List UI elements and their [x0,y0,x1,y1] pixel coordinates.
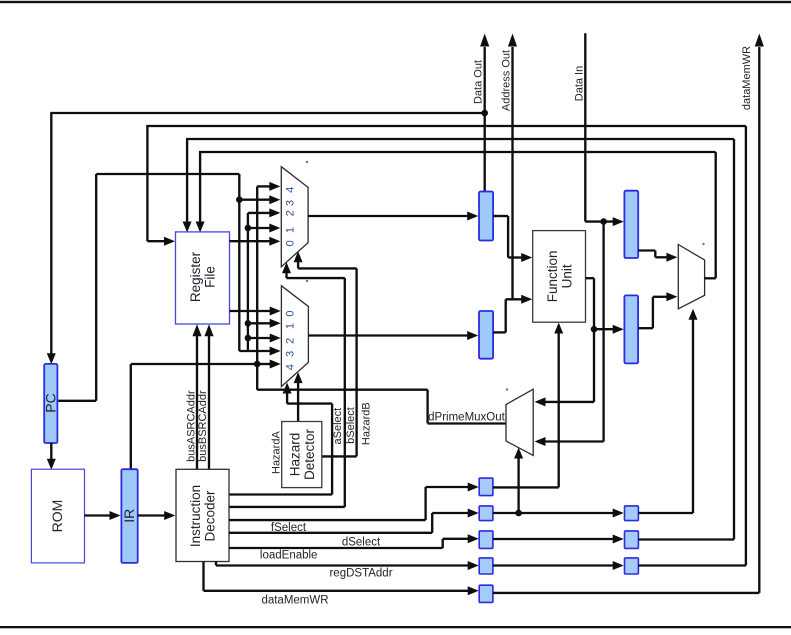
node junction MUXB in4 / IR immediate [254,361,261,368]
register file [176,232,230,324]
hazard detector [282,422,322,488]
pipeline latch R3 [625,531,639,549]
wire register A to function unit input 1 [493,216,532,262]
wire busASRCAddr [192,324,201,469]
instruction decoder [176,469,229,561]
page border top [0,1,791,3]
wire function unit output to register and dPrime mux input 1 [535,278,624,406]
svg-text:Data Out: Data Out [472,60,484,104]
wire regDSTAddr writeback feedback to Register File [146,126,746,566]
wire writeback data from output mux to Register File top [196,152,716,278]
wire dPrimeMuxOut to MUX A input 4 and MUX B input 4 [257,182,506,424]
pipeline latch R2 [625,506,639,521]
wire Data In to register and dPrime mux input 2 [535,33,624,446]
svg-text:busASRCAddr: busASRCAddr [185,390,197,462]
svg-text:0: 0 [285,240,297,246]
svg-text:Unit: Unit [559,264,574,288]
svg-text:HazardB: HazardB [360,402,372,445]
wire busBSRCAddr [204,324,213,469]
svg-text:2: 2 [285,338,297,344]
register FU-output [624,295,638,363]
svg-text:4: 4 [285,364,297,370]
register data-in [624,191,638,258]
wire loadEnable from decoder to pipeline latch 4 [216,561,479,570]
svg-text:3: 3 [285,200,297,206]
wire latch R4 to feedback riser [638,564,746,566]
wire latch R2 to output mux select [638,309,697,513]
svg-text:PC: PC [43,393,59,412]
register IR [121,469,137,563]
node junction MUXB in1 [245,320,252,327]
svg-text:dPrimeMuxOut: dPrimeMuxOut [428,411,505,423]
svg-text:Detector: Detector [302,428,317,480]
wire HazardA from hazard detector to MUX B select [294,372,303,421]
pipeline latch L1 [479,478,493,496]
wire MUX A output to register A [308,212,478,221]
svg-text:Function: Function [545,251,560,303]
svg-text:File: File [203,266,218,288]
wire output mux to writeback feedback [705,277,716,279]
svg-text:bSelect: bSelect [345,407,357,444]
wire ROM to IR [85,511,121,520]
wire dataMemWR from decoder to pipeline latch 5 [204,562,479,596]
pipeline latch L2 [479,506,493,521]
svg-text:4: 4 [285,187,297,193]
page border bottom [0,626,791,628]
wire latch2 (dSelect) to latch R2 and dPrime mux select [493,448,624,518]
wire MUX B output to register B [308,331,478,340]
node junction MUXA in1 [245,225,252,232]
mux B (operand B forwarding mux) [281,286,308,387]
memory ROM [31,469,84,563]
wire decoder output to pipeline latch 1 [229,483,479,521]
svg-text:loadEnable: loadEnable [260,550,318,562]
wire Register File busA to MUX A input 0 [230,237,281,246]
node junction DataOut/feedback [481,110,488,117]
mux output (writeback mux) [678,245,704,309]
node junction MUXA in3 [236,196,243,203]
wire forwarding bus vertical to MUX A inputs 1-2 and MUX B inputs 1-2 [248,208,281,351]
svg-text:regDSTAddr: regDSTAddr [329,568,392,580]
svg-text:dSelect: dSelect [342,536,381,548]
wire PC-load feedback (Data Out net to PC) [47,113,485,364]
svg-text:Register: Register [188,251,203,302]
svg-text:HazardA: HazardA [271,431,283,474]
mux dPrime (writeback select mux) [506,389,533,455]
wire Data Out [480,34,489,192]
svg-text:Hazard: Hazard [287,433,302,477]
svg-text:ROM: ROM [49,500,65,533]
pipeline latch L4 [479,558,493,574]
wire latch R3 to feedback riser [638,538,734,540]
svg-text:busBSRCAddr: busBSRCAddr [197,390,209,462]
wire aSelect from decoder to MUX B select [229,383,332,495]
svg-text:aSelect: aSelect [332,408,344,445]
wire latch1 (fSelect) to function unit select [493,323,563,488]
wire register B to function unit input 2 [493,295,532,333]
wire dSelect from decoder to pipeline latch 3 [229,534,479,548]
svg-text:fSelect: fSelect [271,522,307,534]
svg-text:IR: IR [121,509,137,523]
svg-text:Data In: Data In [573,66,585,101]
svg-text:1: 1 [285,227,297,233]
wire HazardB from hazard detector to MUX A select [294,251,357,456]
wire FU-output register to output mux input 2 [638,292,677,328]
wire data-in register to output mux input 1 [638,251,677,262]
svg-text:Address Out: Address Out [500,50,512,111]
svg-text:dataMemWR: dataMemWR [741,46,753,110]
wire loadEnable writeback feedback to Register File top [183,139,734,540]
wire Address Out [508,34,517,300]
svg-text:2: 2 [285,210,297,216]
wire latch3 to latch R3 [493,535,624,544]
node junction dSelect riser [515,510,522,517]
wire IR output to MUX B input 4 [131,364,257,469]
svg-text:dataMemWR: dataMemWR [261,595,328,607]
svg-text:1: 1 [285,323,297,329]
node junction Data In [600,218,607,225]
svg-text:3: 3 [285,351,297,357]
mux B select pin mark [306,280,308,282]
pipeline latch L3 [479,531,493,549]
svg-text:Instruction: Instruction [188,485,203,547]
pipeline latch L5 [479,585,493,602]
mux A (operand A forwarding mux) [281,167,308,267]
wire PC to ROM [47,443,56,470]
wire fSelect from decoder to pipeline latch 2 [229,509,479,533]
mux A select pin mark [306,161,308,163]
wire IR to Instruction Decoder [138,511,176,520]
output mux select pin mark [702,243,704,245]
svg-text:Decoder: Decoder [203,490,218,542]
svg-text:0: 0 [285,311,297,317]
function unit [533,231,586,323]
register B (operand B) [479,311,493,359]
register A (operand A) [479,192,493,241]
pipeline latch R4 [625,558,639,574]
dPrime mux select pin mark [506,388,508,390]
register PC [44,364,57,443]
wire PC output to forwarding bus [58,174,239,401]
wire Register File busB to MUX B input 0 [230,307,281,316]
node junction MUXB in2 [245,335,252,342]
wire latch4 to latch R4 [493,561,624,570]
node junction FU output [591,326,598,333]
wire bSelect from decoder to MUX A select [229,262,345,507]
wire PC bus vertical to MUX A input 3 and MUX B input 3 [239,174,280,356]
wire latch5 to dataMemWR output [493,34,764,593]
